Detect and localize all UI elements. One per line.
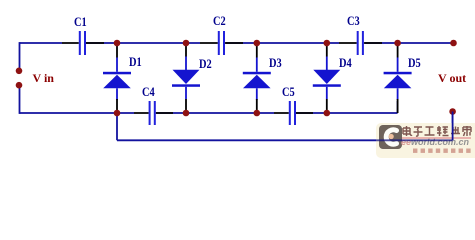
watermark logo e-glyph — [379, 125, 403, 149]
node: V in upper terminal — [16, 68, 23, 75]
label C4 — [142, 85, 155, 98]
watermark logo square — [379, 125, 403, 149]
junction: D3 bottom node — [253, 110, 260, 117]
diode D2 — [172, 43, 200, 113]
capacitor C3 — [339, 31, 382, 55]
junction: D3 top node — [253, 40, 260, 47]
label C1 — [74, 15, 87, 28]
watermark box — [376, 123, 475, 158]
capacitor C4 — [134, 101, 173, 125]
diode D5 — [384, 43, 412, 113]
wire: left input wire — [19, 42, 21, 114]
watermark slogan 创新电子设计之家 — [413, 148, 475, 154]
label D3 — [269, 56, 282, 69]
wire: top rail blue segments — [20, 42, 454, 44]
junction: D1 bottom node — [114, 110, 121, 117]
capacitor C2 — [200, 31, 243, 55]
watermark title underline — [402, 137, 471, 139]
junction: D2 top node — [183, 40, 190, 47]
junction: D4 bottom node — [324, 110, 331, 117]
junction: D1 top node — [114, 40, 121, 47]
capacitor C5 — [274, 101, 313, 125]
node: V out upper terminal — [450, 40, 457, 47]
capacitor C1 — [62, 31, 104, 55]
label D1 — [129, 55, 142, 68]
label D4 — [339, 56, 352, 69]
label D5 — [408, 56, 421, 69]
label V in — [33, 72, 54, 84]
label V out — [438, 72, 466, 84]
diode D1 — [103, 43, 131, 113]
junction: D4 top node — [324, 40, 331, 47]
diode D3 — [243, 43, 271, 113]
junction: D5 top node — [394, 40, 401, 47]
node: V out lower terminal — [449, 108, 456, 115]
node: V in lower terminal — [16, 82, 23, 89]
watermark url eeworld.com.cn — [401, 138, 469, 147]
diode D4 — [313, 43, 341, 113]
label C5 — [282, 85, 295, 98]
junction: D2 bottom node — [183, 110, 190, 117]
label C2 — [213, 14, 226, 27]
wire: output return wire — [117, 112, 453, 141]
wire: bottom rail blue segments — [20, 101, 398, 113]
wire: output return over watermark — [0, 0, 475, 159]
label C3 — [347, 14, 360, 27]
watermark title 电子工程世界 — [401, 125, 473, 137]
label D2 — [199, 57, 212, 70]
